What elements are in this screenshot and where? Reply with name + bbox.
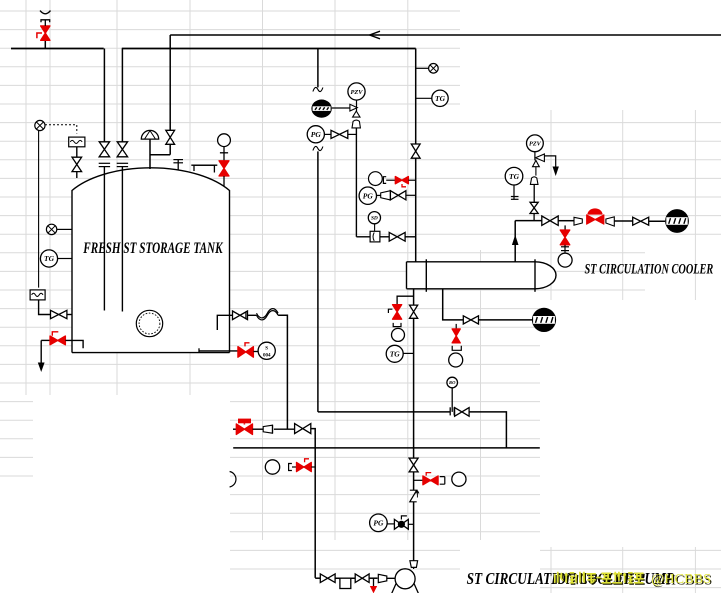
flame arrestor 1	[69, 137, 85, 147]
valve y467 handle	[305, 459, 309, 462]
valve tank bottom drain (red)	[238, 347, 254, 358]
valve line y412	[455, 408, 470, 417]
pipe PSV2 down	[533, 184, 535, 202]
pipe below flame arrestor 1	[76, 147, 78, 157]
pipe inlet elbow to PVRV stem	[169, 144, 171, 154]
valve bottom drain handle	[245, 343, 250, 347]
relief valve triangle	[353, 111, 360, 117]
wire PG1 to valve	[324, 133, 331, 135]
wire globe to riser	[408, 523, 413, 525]
pipe sample branch stub	[455, 324, 457, 329]
suction reducer	[378, 574, 387, 582]
pipe to control valve	[558, 220, 574, 222]
valve vent line	[72, 157, 82, 171]
reducer right of control valve	[606, 217, 614, 226]
pipe PSV2 to header	[533, 214, 535, 221]
valve on riser x415.7	[411, 144, 420, 158]
pipe valve to tag circle	[253, 351, 258, 353]
pipe x318 lower segment	[317, 151, 319, 412]
instrument TG tank side	[40, 250, 57, 267]
wire valve to PSV stem	[348, 133, 357, 135]
instrument TG mid	[432, 90, 448, 106]
wire TG to riser	[403, 352, 413, 354]
valve drain handle	[52, 332, 58, 336]
pipe seg	[335, 577, 355, 579]
gauge circle y467	[265, 460, 279, 474]
wire PG2 stub	[377, 194, 381, 196]
valve cooler inlet sample (red)	[393, 305, 402, 320]
wire y467	[292, 466, 297, 468]
valve tank drain (red)	[50, 336, 65, 345]
valve discharge at cooler	[410, 305, 418, 318]
pipe y412 elbow down	[469, 412, 506, 448]
level gauge tube into tank	[223, 176, 225, 186]
tank dip tube 2	[121, 167, 123, 312]
tank FRESH ST STORAGE TANK shell	[72, 168, 230, 353]
spectacle blind	[370, 231, 380, 242]
instrument PZV 2	[527, 135, 544, 152]
valve PSV1 discharge	[389, 232, 405, 241]
pipe pump suction run	[315, 577, 320, 579]
valve discharge check	[409, 458, 418, 472]
pipe arrestor2 elbow	[39, 300, 51, 315]
svg-text:PZV: PZV	[529, 141, 542, 148]
watermark pseudo-CJK shadow	[556, 573, 645, 584]
cooler tubesheet left	[425, 259, 427, 292]
rupture disc circle top-left	[35, 120, 45, 130]
control valve body (red)	[587, 215, 604, 224]
sample funnel bracket	[452, 346, 461, 351]
relief valve 2 bonnet	[535, 167, 537, 176]
pipe long line y448	[233, 447, 540, 449]
cooler body white fill	[407, 262, 557, 289]
pipe blind to valve	[380, 236, 389, 238]
sample valve handle	[388, 309, 392, 313]
instrument connection circle mid	[429, 64, 439, 74]
valve gauge branch (red)	[560, 230, 570, 245]
pipe PSV1 elbow to HX riser	[356, 236, 370, 238]
pipe drain to sewer	[40, 340, 42, 363]
pipe pump discharge riser	[413, 289, 415, 305]
dotted signal to flame arrestor	[45, 125, 77, 134]
flow arrow on H1 (pointing left)	[370, 31, 381, 39]
pipe drain left run	[41, 339, 50, 341]
pipe riser x415.7 upper	[415, 49, 417, 145]
tank bottom nozzle tick	[198, 348, 200, 352]
wire y467 to riser	[311, 466, 315, 468]
tank dip tube 1	[103, 167, 105, 311]
gauge circle y480	[452, 472, 466, 486]
flow arrow up on riser	[512, 235, 519, 245]
reducer left of control valve	[574, 217, 582, 225]
instrument PG 3	[370, 514, 388, 532]
valve gauge root (red)	[395, 177, 408, 184]
valve gauge y480 (red)	[423, 476, 438, 485]
relief valve bonnet	[352, 120, 360, 128]
instrument black oval PSLL	[311, 100, 331, 118]
valve V-01 handle	[37, 33, 42, 38]
svg-text:@HCBBS: @HCBBS	[651, 571, 711, 586]
control valve actuator dome (red)	[587, 208, 602, 214]
TG stem with flange ticks	[513, 185, 515, 200]
valve on tank inlet riser	[166, 130, 175, 144]
check valve y429	[263, 425, 272, 433]
flame arrestor 2	[30, 290, 45, 300]
sample funnel bracket 2	[393, 323, 401, 327]
pipe cooler bottom outlet elbow	[443, 289, 464, 320]
pipe y429 seg3	[274, 428, 295, 430]
valve actuated (red) y429	[236, 424, 252, 435]
PVRV breather dome	[141, 130, 158, 139]
pipe tank nozzle A riser	[103, 49, 105, 142]
PSV1 stem upper	[356, 100, 358, 111]
instrument black bubble cooler	[532, 308, 556, 332]
equipment tag circle S004	[258, 342, 275, 359]
pipe header H2 right segment	[122, 48, 416, 50]
valve gauge root handle	[402, 184, 406, 187]
pipe vent into tank top	[76, 172, 78, 178]
sample branch at cooler inlet	[397, 296, 414, 304]
blind bracket y480	[440, 477, 445, 485]
tank body white fill	[72, 168, 230, 353]
PSV2 stem	[534, 152, 536, 161]
pipe line y412	[318, 411, 450, 413]
reducer bracket PG2	[381, 191, 391, 200]
instrument PZV 1	[348, 83, 365, 100]
wire xcirc to tank	[57, 228, 72, 230]
sample gauge circle 2	[392, 328, 405, 341]
pipe drain right segment	[65, 340, 83, 348]
gauge branch y480	[414, 479, 423, 481]
PVRV stem to tank	[149, 139, 151, 169]
pump discharge reducer funnel	[410, 561, 418, 568]
pipe valve to tank wall	[67, 314, 72, 316]
svg-text:TG: TG	[435, 94, 446, 103]
valve suction 2	[355, 574, 369, 583]
pipe outlet to hose	[248, 314, 257, 316]
pipe break squiggle 2	[313, 146, 323, 150]
wire to xcirc mid	[416, 67, 429, 69]
svg-text:TG: TG	[509, 172, 520, 181]
pipe into pump	[387, 577, 405, 579]
pipe header H1 (top, to right edge)	[170, 34, 721, 36]
pipe break squiggle 1	[313, 87, 323, 91]
relief valve 2 triangle	[533, 160, 540, 166]
pipe to instrument bubble	[649, 220, 665, 222]
valve y429 block	[295, 424, 311, 434]
internal suction elbow	[217, 315, 229, 330]
Y-strainer	[410, 490, 417, 502]
vent gooseneck arc	[40, 11, 51, 14]
tank manhole nozzle	[194, 165, 214, 172]
pipe RO down to line	[451, 388, 453, 412]
suction strainer box	[340, 578, 351, 588]
valve on nozzle A	[99, 142, 109, 157]
tank top flange stub	[177, 160, 179, 170]
instrument connection circle left	[46, 224, 56, 234]
pipe gauge branch down	[564, 225, 566, 230]
wire riser top-left valve	[44, 40, 46, 48]
flange pair nozzle B	[117, 162, 128, 164]
cooler tubesheet right	[534, 259, 536, 292]
pipe tank inlet riser from H1	[169, 35, 171, 130]
pipe tank outlet stub	[230, 314, 233, 316]
pipe y429 elbow down	[311, 429, 315, 578]
flange pair nozzle A	[99, 162, 110, 164]
valve V-01 stem and T-bar	[44, 20, 46, 26]
pipe tank nozzle B riser	[121, 49, 123, 142]
svg-text:S: S	[265, 347, 268, 352]
drain arrow	[38, 363, 45, 373]
valve V-01 (red, top-left)	[41, 26, 50, 40]
pump ST circulation pump	[395, 569, 415, 589]
restriction orifice RO	[447, 377, 458, 388]
wire to TG mid	[416, 97, 432, 99]
valve y467 (red)	[297, 462, 312, 471]
pipe y429 left stub	[233, 428, 236, 430]
solenoid triangle right	[350, 104, 357, 111]
valve y480 handle	[426, 473, 431, 476]
svg-text:TG: TG	[44, 254, 55, 263]
pipe y429 seg2	[253, 428, 264, 430]
pipe cooler outlet header	[515, 220, 542, 222]
instrument SD circle	[368, 212, 380, 224]
pipe tank bottom drain run	[199, 350, 238, 352]
globe valve PG3	[394, 519, 408, 529]
instrument TG discharge	[386, 345, 403, 362]
solenoid triangle left	[536, 154, 545, 162]
valve tank side lower-left	[51, 310, 67, 318]
pipe seg 2	[369, 577, 377, 579]
wire oval to PSV stem	[332, 107, 350, 109]
pipe header H2 left segment	[11, 48, 104, 50]
wire PG3 stub	[387, 523, 394, 525]
PSV2 vent line with down arrow	[544, 156, 555, 167]
valve PSV2 isolation	[530, 202, 538, 213]
svg-text:004: 004	[263, 354, 271, 359]
svg-text:PG: PG	[363, 191, 374, 200]
blind flange bracket	[383, 177, 386, 184]
svg-text:RO: RO	[449, 380, 456, 385]
pipe from rupture disc down	[38, 131, 40, 288]
valve sample red	[452, 329, 460, 343]
pipe valve to riser	[405, 236, 416, 238]
blind bracket y467	[289, 464, 292, 471]
tank manway circle	[136, 310, 162, 336]
svg-text:SD: SD	[371, 216, 378, 222]
wire red valve to riser	[408, 179, 415, 181]
gauge circle mid	[369, 172, 383, 186]
valve PG1 isolation	[331, 130, 348, 138]
pressure gauge circle branch	[558, 253, 572, 267]
valve suction 1	[320, 574, 335, 583]
level gauge circle on tank top	[218, 134, 231, 147]
pipe hose to riser elbow	[278, 315, 287, 429]
svg-text:PG: PG	[373, 519, 384, 528]
valve on nozzle B	[117, 142, 127, 157]
pipe cooler outlet riser	[514, 221, 516, 262]
cooler shell	[407, 262, 536, 289]
flexible hose	[257, 311, 279, 320]
svg-text:PZV: PZV	[350, 89, 363, 96]
valve PG2 isolation	[390, 191, 406, 200]
valve cooler bottom outlet	[463, 316, 478, 324]
blind flange below red valve	[564, 245, 566, 253]
pipe PSV1 down run	[355, 128, 357, 237]
instrument PG 2	[359, 187, 376, 204]
wire valve to riser 2	[406, 194, 416, 196]
pipe to black bubble 3	[479, 319, 533, 321]
wire SD to blind	[374, 224, 376, 232]
watermark pseudo-CJK	[555, 572, 644, 583]
svg-text:TG: TG	[390, 350, 401, 359]
instrument black bubble right	[665, 209, 689, 233]
valve tank outlet	[233, 311, 248, 320]
pipe riser x415.7 lower	[415, 158, 417, 262]
partial circle at white edge	[230, 472, 236, 488]
valve level gauge (red)	[219, 161, 229, 176]
orifice flange ticks	[449, 407, 451, 415]
instrument PG 1	[307, 126, 324, 143]
sample gauge circle	[449, 353, 463, 367]
pipe control valve to block valve	[614, 220, 632, 222]
drain stem red triangle	[373, 578, 375, 586]
valve cooler outlet	[542, 216, 558, 225]
pipe x318 upper segment	[317, 49, 319, 88]
valve block at cooler inlet	[633, 217, 649, 225]
svg-text:ST CIRCULATION COOLER: ST CIRCULATION COOLER	[585, 262, 714, 278]
level gauge stem T-bar	[223, 147, 225, 161]
wire bracket to red valve	[386, 179, 395, 181]
instrument TG cooler outlet	[505, 167, 523, 185]
svg-text:PG: PG	[311, 130, 322, 139]
wire TG to tank	[58, 258, 72, 260]
